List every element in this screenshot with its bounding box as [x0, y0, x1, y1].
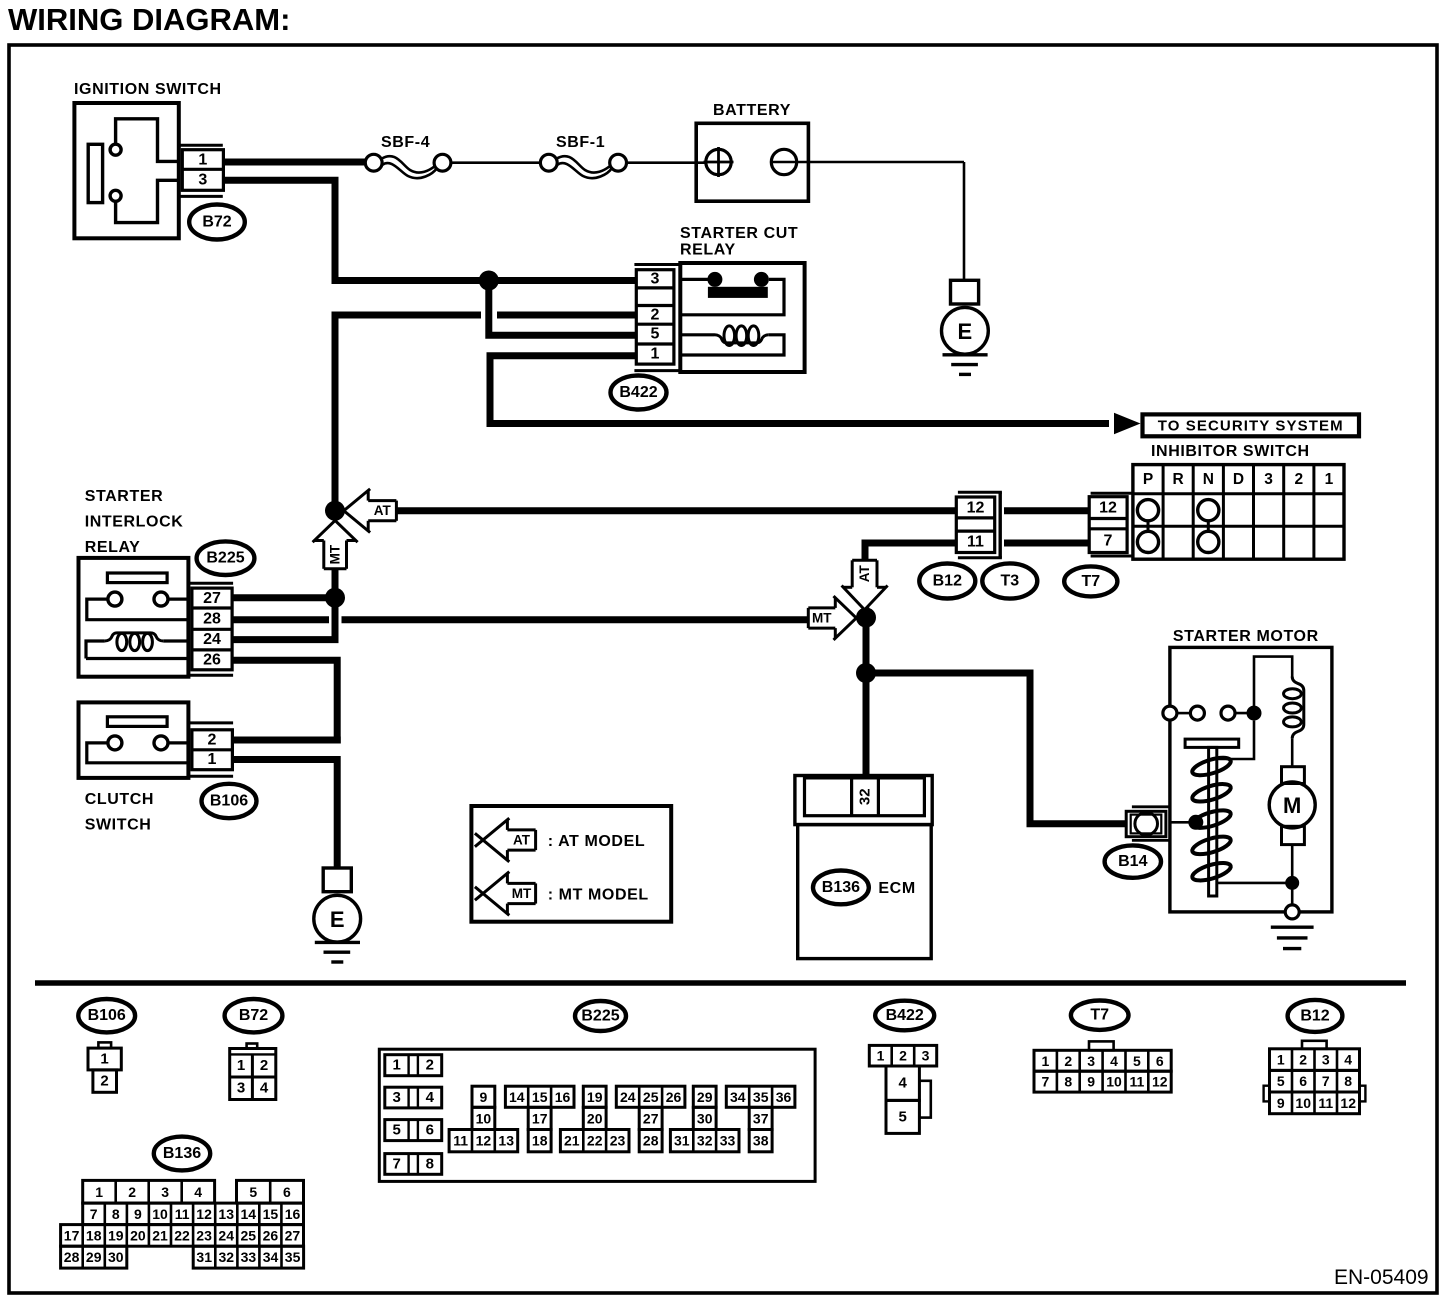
svg-text:3: 3 — [922, 1048, 930, 1064]
svg-text:SWITCH: SWITCH — [85, 817, 152, 834]
svg-text:B225: B225 — [206, 550, 244, 567]
svg-text:2: 2 — [1299, 1052, 1307, 1068]
svg-text:16: 16 — [555, 1089, 571, 1105]
svg-text:4: 4 — [426, 1089, 435, 1106]
svg-text:38: 38 — [753, 1133, 769, 1149]
svg-text:2: 2 — [1064, 1053, 1072, 1069]
svg-text:17: 17 — [532, 1110, 548, 1126]
svg-text:22: 22 — [174, 1227, 190, 1243]
svg-text:31: 31 — [674, 1133, 690, 1149]
svg-text:9: 9 — [1277, 1095, 1285, 1111]
svg-text:19: 19 — [108, 1227, 124, 1243]
svg-text:ECM: ECM — [878, 880, 915, 897]
svg-text:7: 7 — [1042, 1074, 1050, 1090]
svg-text:B72: B72 — [239, 1007, 268, 1024]
svg-text:6: 6 — [283, 1184, 291, 1200]
svg-text:3: 3 — [237, 1080, 245, 1097]
svg-text:MT: MT — [328, 544, 343, 564]
svg-text:14: 14 — [241, 1206, 257, 1222]
svg-text:D: D — [1233, 471, 1244, 488]
svg-text:21: 21 — [152, 1227, 168, 1243]
svg-text:STARTER MOTOR: STARTER MOTOR — [1173, 628, 1319, 645]
svg-text:12: 12 — [1340, 1095, 1356, 1111]
svg-text:P: P — [1143, 471, 1153, 488]
svg-text:33: 33 — [720, 1133, 736, 1149]
svg-text:4: 4 — [1110, 1053, 1118, 1069]
svg-text:16: 16 — [285, 1206, 301, 1222]
svg-text:8: 8 — [1064, 1074, 1072, 1090]
svg-text:5: 5 — [1277, 1073, 1285, 1089]
svg-text:2: 2 — [426, 1057, 434, 1074]
svg-text:RELAY: RELAY — [680, 242, 736, 259]
svg-text:AT: AT — [374, 503, 392, 518]
svg-text:3: 3 — [161, 1184, 169, 1200]
svg-text:11: 11 — [175, 1206, 190, 1222]
svg-text:5: 5 — [393, 1122, 401, 1139]
svg-text:27: 27 — [643, 1110, 659, 1126]
svg-text:INTERLOCK: INTERLOCK — [85, 514, 184, 531]
svg-text:23: 23 — [196, 1227, 212, 1243]
svg-text:5: 5 — [899, 1109, 907, 1126]
svg-text:10: 10 — [1295, 1095, 1311, 1111]
svg-text:1: 1 — [100, 1051, 108, 1068]
svg-text:8: 8 — [426, 1155, 434, 1172]
svg-text:24: 24 — [203, 631, 221, 648]
svg-text:E: E — [330, 907, 345, 932]
svg-text:10: 10 — [1106, 1074, 1122, 1090]
svg-text:2: 2 — [1294, 471, 1303, 488]
svg-text:MT: MT — [512, 886, 532, 901]
svg-text:4: 4 — [899, 1075, 908, 1092]
svg-text:3: 3 — [1087, 1053, 1095, 1069]
svg-text:T7: T7 — [1081, 573, 1100, 590]
svg-text:AT: AT — [513, 833, 531, 848]
svg-text:1: 1 — [1042, 1053, 1050, 1069]
svg-text:9: 9 — [480, 1089, 488, 1105]
svg-text:36: 36 — [776, 1089, 792, 1105]
svg-text:IGNITION SWITCH: IGNITION SWITCH — [74, 81, 222, 98]
svg-text:5: 5 — [1133, 1053, 1141, 1069]
svg-text:18: 18 — [532, 1133, 548, 1149]
svg-text:B72: B72 — [202, 214, 231, 231]
svg-text:25: 25 — [643, 1089, 659, 1105]
svg-text:1: 1 — [95, 1184, 103, 1200]
svg-text:M: M — [1283, 793, 1301, 818]
svg-text:26: 26 — [666, 1089, 682, 1105]
svg-text:7: 7 — [1104, 533, 1113, 550]
svg-text:MT: MT — [812, 611, 832, 626]
svg-text:25: 25 — [241, 1227, 257, 1243]
svg-text:28: 28 — [643, 1133, 659, 1149]
svg-text:2: 2 — [208, 732, 217, 749]
svg-text:19: 19 — [587, 1089, 603, 1105]
svg-text:3: 3 — [1264, 471, 1273, 488]
svg-text:24: 24 — [620, 1089, 636, 1105]
svg-text:STARTER: STARTER — [85, 488, 164, 505]
svg-text:2: 2 — [260, 1057, 268, 1074]
svg-text:14: 14 — [509, 1089, 525, 1105]
svg-text:: MT MODEL: : MT MODEL — [548, 887, 649, 904]
svg-text:20: 20 — [130, 1227, 146, 1243]
svg-text:1: 1 — [237, 1057, 245, 1074]
svg-text:6: 6 — [1156, 1053, 1164, 1069]
svg-text:8: 8 — [1344, 1073, 1352, 1089]
svg-text:2: 2 — [100, 1073, 108, 1090]
svg-text:32: 32 — [697, 1133, 713, 1149]
svg-text:3: 3 — [393, 1089, 401, 1106]
svg-text:30: 30 — [697, 1110, 713, 1126]
svg-text:27: 27 — [285, 1227, 301, 1243]
svg-text:CLUTCH: CLUTCH — [85, 791, 154, 808]
svg-text:STARTER CUT: STARTER CUT — [680, 225, 798, 242]
svg-text:1: 1 — [198, 152, 207, 169]
svg-text:18: 18 — [86, 1227, 102, 1243]
svg-text:EN-05409: EN-05409 — [1334, 1266, 1429, 1289]
svg-text:34: 34 — [263, 1249, 279, 1265]
svg-text:WIRING DIAGRAM:: WIRING DIAGRAM: — [8, 2, 290, 37]
svg-text:29: 29 — [697, 1089, 713, 1105]
svg-text:10: 10 — [152, 1206, 168, 1222]
svg-text:28: 28 — [64, 1249, 80, 1265]
svg-text:INHIBITOR SWITCH: INHIBITOR SWITCH — [1151, 443, 1310, 460]
svg-text:32: 32 — [219, 1249, 235, 1265]
svg-text:17: 17 — [64, 1227, 80, 1243]
svg-text:AT: AT — [857, 565, 872, 583]
svg-text:35: 35 — [753, 1089, 769, 1105]
svg-text:11: 11 — [1318, 1095, 1333, 1111]
svg-text:20: 20 — [587, 1110, 603, 1126]
svg-text:15: 15 — [263, 1206, 279, 1222]
svg-text:2: 2 — [128, 1184, 136, 1200]
svg-text:T7: T7 — [1090, 1007, 1109, 1024]
svg-text:7: 7 — [393, 1155, 401, 1172]
svg-text:RELAY: RELAY — [85, 539, 141, 556]
svg-text:10: 10 — [476, 1110, 492, 1126]
svg-text:12: 12 — [1152, 1074, 1168, 1090]
svg-text:SBF-1: SBF-1 — [556, 134, 605, 151]
svg-text:24: 24 — [218, 1227, 234, 1243]
svg-text:B106: B106 — [88, 1007, 126, 1024]
svg-text:27: 27 — [203, 590, 221, 607]
svg-text:TO SECURITY SYSTEM: TO SECURITY SYSTEM — [1158, 418, 1344, 435]
svg-text:8: 8 — [112, 1206, 120, 1222]
svg-text:B14: B14 — [1118, 853, 1147, 870]
svg-text:1: 1 — [393, 1057, 401, 1074]
svg-text:33: 33 — [241, 1249, 257, 1265]
svg-text:22: 22 — [587, 1133, 603, 1149]
svg-text:37: 37 — [753, 1110, 769, 1126]
svg-text:N: N — [1203, 471, 1214, 488]
svg-text:28: 28 — [203, 611, 221, 628]
svg-text:15: 15 — [532, 1089, 548, 1105]
svg-text:B12: B12 — [933, 573, 962, 590]
svg-text:1: 1 — [1277, 1052, 1285, 1068]
svg-text:6: 6 — [426, 1122, 434, 1139]
svg-text:: AT MODEL: : AT MODEL — [548, 833, 646, 850]
svg-text:23: 23 — [610, 1133, 626, 1149]
svg-text:3: 3 — [651, 271, 660, 288]
svg-text:B225: B225 — [581, 1008, 619, 1025]
svg-text:5: 5 — [651, 326, 660, 343]
svg-text:35: 35 — [285, 1249, 301, 1265]
svg-text:21: 21 — [564, 1133, 580, 1149]
svg-text:12: 12 — [196, 1206, 212, 1222]
svg-text:1: 1 — [877, 1048, 885, 1064]
svg-text:B106: B106 — [210, 793, 248, 810]
svg-text:13: 13 — [218, 1206, 234, 1222]
svg-text:E: E — [958, 319, 973, 344]
svg-text:6: 6 — [1299, 1073, 1307, 1089]
svg-text:26: 26 — [263, 1227, 279, 1243]
svg-text:11: 11 — [967, 534, 984, 551]
svg-text:9: 9 — [1087, 1074, 1095, 1090]
svg-text:1: 1 — [651, 346, 660, 363]
svg-text:B422: B422 — [886, 1007, 924, 1024]
svg-text:29: 29 — [86, 1249, 102, 1265]
svg-text:B422: B422 — [619, 384, 657, 401]
svg-text:7: 7 — [1322, 1073, 1330, 1089]
svg-text:4: 4 — [194, 1184, 202, 1200]
svg-text:30: 30 — [108, 1249, 124, 1265]
svg-text:4: 4 — [1344, 1052, 1352, 1068]
svg-text:9: 9 — [134, 1206, 142, 1222]
svg-text:B12: B12 — [1300, 1007, 1329, 1024]
svg-text:31: 31 — [196, 1249, 212, 1265]
svg-text:1: 1 — [1325, 471, 1334, 488]
svg-text:11: 11 — [1129, 1074, 1144, 1090]
svg-text:2: 2 — [651, 307, 660, 324]
svg-text:SBF-4: SBF-4 — [381, 134, 430, 151]
svg-text:13: 13 — [498, 1133, 514, 1149]
svg-text:B136: B136 — [822, 879, 860, 896]
svg-text:4: 4 — [260, 1080, 269, 1097]
svg-text:3: 3 — [198, 172, 207, 189]
svg-text:12: 12 — [1099, 500, 1117, 517]
svg-text:R: R — [1172, 471, 1183, 488]
svg-text:BATTERY: BATTERY — [713, 102, 791, 119]
svg-text:7: 7 — [90, 1206, 98, 1222]
svg-text:34: 34 — [730, 1089, 746, 1105]
svg-text:3: 3 — [1322, 1052, 1330, 1068]
svg-text:T3: T3 — [1000, 573, 1019, 590]
svg-text:1: 1 — [208, 751, 217, 768]
svg-text:2: 2 — [899, 1048, 907, 1064]
svg-text:5: 5 — [249, 1184, 257, 1200]
svg-text:32: 32 — [857, 788, 874, 805]
svg-text:11: 11 — [453, 1133, 468, 1149]
svg-text:12: 12 — [967, 500, 985, 517]
svg-text:26: 26 — [203, 652, 221, 669]
svg-text:B136: B136 — [163, 1145, 201, 1162]
svg-text:12: 12 — [476, 1133, 492, 1149]
